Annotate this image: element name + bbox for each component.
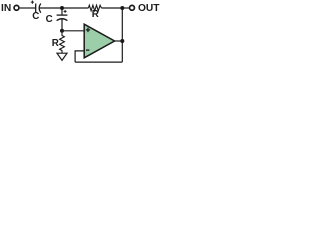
- wire op-amp inverting input (feedback corner): [75, 51, 84, 62]
- wire IN terminal to C1: [20, 7, 36, 9]
- node junction dot (output node): [120, 39, 124, 43]
- wire C2 to lower node: [61, 19, 63, 31]
- terminal IN (open circle): [14, 5, 19, 10]
- node junction dot (op-amp + input node): [60, 29, 64, 33]
- background: [0, 0, 162, 66]
- wire C1 to resistor R (top): [39, 7, 88, 9]
- polarity + of capacitor C2: [64, 10, 67, 13]
- polarity + of capacitor C1: [31, 1, 34, 4]
- terminal OUT (open circle): [130, 5, 135, 10]
- svg-text:IN: IN: [1, 3, 11, 14]
- resistor R (vertical, to ground): [60, 31, 65, 53]
- svg-text:R: R: [92, 9, 99, 20]
- resistor R (top, series): [88, 5, 101, 11]
- wire to OUT terminal: [122, 7, 129, 9]
- op-amp U1: [84, 24, 114, 58]
- svg-text:R: R: [52, 38, 59, 49]
- svg-text:OUT: OUT: [138, 3, 160, 14]
- capacitor C1 (series, polarized): straight plate: [35, 4, 37, 13]
- capacitor C2 curved bottom plate: [57, 19, 68, 21]
- capacitor C1 curved plate: [39, 4, 41, 13]
- wire output vertical (OUT rail): [121, 8, 123, 62]
- svg-text:C: C: [32, 11, 39, 22]
- svg-text:C: C: [46, 14, 53, 25]
- wire feedback bottom rail: [75, 61, 122, 63]
- wire top resistor to output node: [101, 7, 122, 9]
- node junction dot (input node): [60, 6, 64, 10]
- wire op-amp output: [115, 40, 123, 42]
- ground: [57, 53, 67, 60]
- wire node down to C2: [61, 8, 63, 15]
- op-amp + input sign: [86, 28, 90, 32]
- op-amp - input sign: [86, 49, 89, 51]
- wire node to op-amp + input: [62, 30, 85, 32]
- node junction dot (top OUT node): [120, 6, 124, 10]
- capacitor C2 (shunt, polarized): straight top plate: [57, 14, 68, 16]
